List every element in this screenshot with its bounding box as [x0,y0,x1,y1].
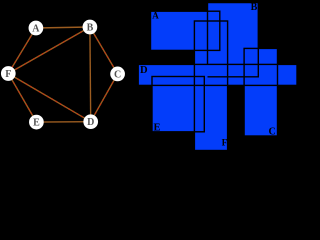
svg-text:B: B [251,2,258,13]
svg-text:F: F [5,69,11,80]
svg-text:B: B [87,22,94,33]
svg-text:D: D [140,65,148,76]
svg-text:C: C [114,69,121,80]
svg-text:F: F [222,138,228,148]
svg-text:E: E [154,123,161,134]
svg-text:E: E [33,118,40,129]
svg-text:A: A [32,23,40,34]
svg-text:C: C [269,127,276,138]
svg-text:D: D [87,117,94,128]
svg-text:A: A [152,11,159,21]
